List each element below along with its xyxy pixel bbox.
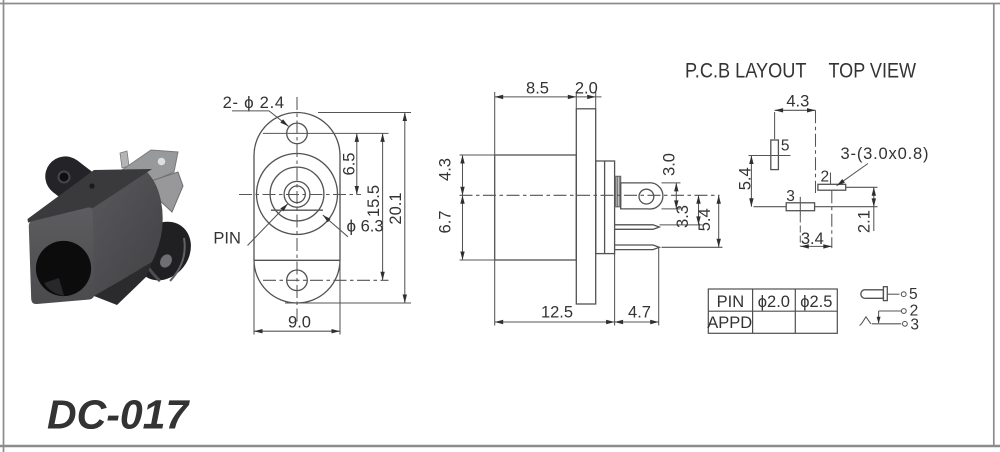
svg-text:PIN: PIN: [213, 230, 241, 248]
dimension 3.3 extension line: [660, 224, 703, 226]
dimension 20.1 line: [404, 113, 406, 304]
photo: metal prong small top: [120, 151, 129, 168]
side view: horizontal centerline: [460, 194, 720, 196]
svg-text:3: 3: [786, 188, 795, 205]
pcb layout: slot 3 centerline left: [754, 206, 787, 208]
photo: metal solder lug upper: [122, 150, 178, 186]
front view: top mounting hole: [287, 123, 308, 144]
svg-text:6.5: 6.5: [341, 153, 359, 176]
dimension 4.3 (pcb) extension line left: [774, 112, 776, 139]
photo: flange ear inner arc: [139, 236, 160, 281]
photo: body top face: [28, 169, 153, 223]
svg-text:3.3: 3.3: [674, 205, 692, 228]
dimension 9.0 extension lines: [253, 262, 255, 335]
dimension 4.3 (pcb) line: [775, 109, 816, 111]
svg-text:DC-017: DC-017: [47, 392, 190, 438]
photo: flange plate (tilted stadium): [37, 148, 180, 271]
svg-text:2: 2: [910, 302, 919, 319]
svg-text:ϕ 6.3: ϕ 6.3: [347, 217, 384, 236]
svg-text:20.1: 20.1: [387, 192, 405, 224]
photo: metal lug hole: [158, 158, 166, 166]
symbol switch zigzag tip: [860, 317, 871, 326]
symbol switch branch to terminal 2: [879, 310, 902, 312]
photo: barrel hole inner glint: [44, 278, 64, 296]
front view: center pin circle: [289, 186, 306, 203]
side view: flange rectangle: [576, 109, 595, 304]
svg-text:TOP VIEW: TOP VIEW: [829, 59, 917, 83]
svg-text:8.5: 8.5: [526, 80, 549, 98]
photo: flange top-left ear hole: [59, 172, 70, 183]
photo: top face screw dot: [89, 183, 94, 188]
photo: barrel hole: [36, 241, 91, 296]
svg-text:3.0: 3.0: [661, 153, 679, 176]
side view: lower pin: [615, 245, 660, 250]
svg-text:5: 5: [781, 138, 790, 155]
dimension 4.3/6.7 extension lines: [460, 154, 495, 156]
label 3-(3.0x0.8) leader: [837, 164, 868, 186]
svg-text:3.4: 3.4: [801, 230, 824, 248]
svg-text:ϕ2.5: ϕ2.5: [800, 293, 832, 311]
side view: bushing rectangle: [596, 161, 615, 254]
symbol terminal 5 circle: [901, 292, 906, 297]
table outline: [708, 289, 837, 333]
photo: body barrel mass: [86, 170, 163, 297]
svg-text:9.0: 9.0: [288, 314, 311, 332]
dimension 4.3 line: [462, 155, 464, 260]
table column divider 2: [794, 289, 796, 333]
pcb layout: slot 2 vertical tick: [830, 173, 832, 185]
dimension 5.4 extension line: [662, 246, 723, 248]
side view: upper pin: [615, 225, 660, 230]
front view: pin sleeve ring: [284, 181, 310, 207]
dimension 15.5 line: [382, 133, 384, 280]
dimension 3.0 line: [675, 183, 677, 209]
sheet frame right border: [993, 4, 995, 447]
sheet frame left border: [3, 0, 5, 452]
symbol plug wire to terminal 5: [887, 293, 899, 295]
side view: solder lug: [621, 183, 663, 209]
pcb layout: slot 3: [786, 203, 814, 211]
sheet frame bottom border: [0, 445, 1000, 448]
photo: metal lug lower prong: [145, 172, 183, 212]
dimension 5.4 line: [718, 195, 720, 247]
pcb layout: slot 3 dashed drop line: [799, 216, 801, 247]
front view: extension line oval top: [318, 112, 411, 114]
label 2-phi2.4 leader: [232, 111, 288, 126]
dimension 3.4 line: [800, 245, 832, 247]
side view: bushing internal line: [604, 161, 606, 254]
dimension 3.0 extension lines: [662, 182, 681, 184]
svg-text:12.5: 12.5: [541, 304, 573, 322]
svg-text:PIN: PIN: [717, 293, 745, 311]
photo: flange ear rim highlight: [170, 238, 185, 281]
symbol terminal 2 circle: [901, 309, 906, 314]
pcb layout: slot 2 center dash-dot line: [831, 190, 833, 248]
side view: spring washer: [616, 176, 621, 207]
symbol switch branch arrowhead: [877, 317, 881, 324]
front view: barrel flat chord: [271, 209, 323, 211]
dimension 2.0 arrow: [587, 95, 596, 99]
symbol plug flange bar: [883, 287, 887, 301]
dimension 12.5 extension lines: [494, 260, 496, 326]
front view: top hole centerline: [263, 132, 389, 134]
symbol switch branch vertical: [878, 311, 880, 323]
symbol terminal 3 circle: [903, 321, 908, 326]
sheet frame top border: [0, 3, 1000, 5]
side view: lug hole: [639, 189, 654, 204]
pcb layout: slot 5 horizontal centerline: [749, 155, 791, 157]
label PIN leader: [248, 204, 288, 246]
dimension 6.7 arrows: [460, 195, 464, 204]
pcb layout: slot 3 centerline right: [815, 206, 878, 208]
pcb layout: slot 2: [818, 184, 846, 190]
table row divider: [708, 310, 837, 312]
svg-text:4.3: 4.3: [437, 158, 455, 181]
photo: front face: [29, 207, 95, 304]
front view: bottom mounting hole: [287, 270, 308, 291]
svg-text:4.7: 4.7: [628, 304, 651, 322]
dimension 12.5 line: [495, 321, 615, 323]
svg-text:P.C.B LAYOUT: P.C.B LAYOUT: [685, 59, 807, 83]
pcb layout: slot 5: [771, 140, 779, 170]
dimension 8.5 extension lines: [494, 92, 496, 155]
photo of DC jack: [28, 148, 203, 305]
dimension 5.4 (pcb) line: [750, 156, 752, 207]
front view: body bottom tangent chord: [254, 259, 340, 261]
svg-text:ϕ2.0: ϕ2.0: [758, 293, 790, 311]
front view: vertical centerline: [296, 97, 298, 322]
svg-text:5.4: 5.4: [696, 208, 714, 231]
dimension 4.7 line: [615, 321, 659, 323]
svg-text:3-(3.0x0.8): 3-(3.0x0.8): [841, 145, 929, 163]
dimension 8.5 line: [495, 96, 602, 98]
svg-text:2: 2: [821, 169, 830, 186]
svg-text:15.5: 15.5: [365, 185, 383, 217]
side view: main body rectangle: [495, 155, 577, 260]
label phi6.3 leader: [323, 215, 348, 237]
dimension 4.3 (pcb) dash-dot extension right: [815, 110, 817, 193]
dimension 6.5 line: [356, 133, 358, 194]
svg-text:6.7: 6.7: [437, 211, 455, 234]
svg-text:2.1: 2.1: [855, 210, 873, 233]
symbol switch common line to terminal 3: [872, 323, 902, 325]
photo: barrel-to-flange crevice: [131, 235, 150, 268]
photo: barrel bottom shadow: [94, 262, 152, 305]
front view: hole circle phi6.3: [270, 167, 324, 221]
front view: horizontal centerline: [239, 194, 361, 196]
front view: outer barrel circle: [257, 154, 338, 235]
svg-text:5: 5: [909, 286, 918, 303]
table column divider 1: [752, 289, 754, 333]
svg-text:APPD: APPD: [707, 314, 752, 332]
svg-text:4.3: 4.3: [786, 93, 809, 111]
front view: extension line oval bottom: [285, 302, 411, 304]
photo: flange bottom-right ear: [124, 211, 203, 292]
svg-text:2.0: 2.0: [575, 80, 598, 98]
photo: flange ear hole (lit bore): [158, 252, 175, 270]
pcb layout: slot 3 vertical tick: [799, 197, 801, 216]
dimension 2.1 line: [873, 187, 875, 231]
pcb layout: slot 2 right centerline: [846, 186, 878, 188]
svg-text:2- ϕ 2.4: 2- ϕ 2.4: [223, 93, 285, 112]
dimension 4.7 extension line: [658, 248, 660, 326]
symbol plug barrel: [861, 290, 884, 299]
svg-text:5.4: 5.4: [737, 167, 755, 190]
dimension 3.3 line: [698, 195, 700, 225]
front view: flange stadium outline: [254, 113, 340, 304]
dimension 9.0 line: [254, 330, 340, 332]
front view: bottom hole centerline: [263, 279, 389, 281]
